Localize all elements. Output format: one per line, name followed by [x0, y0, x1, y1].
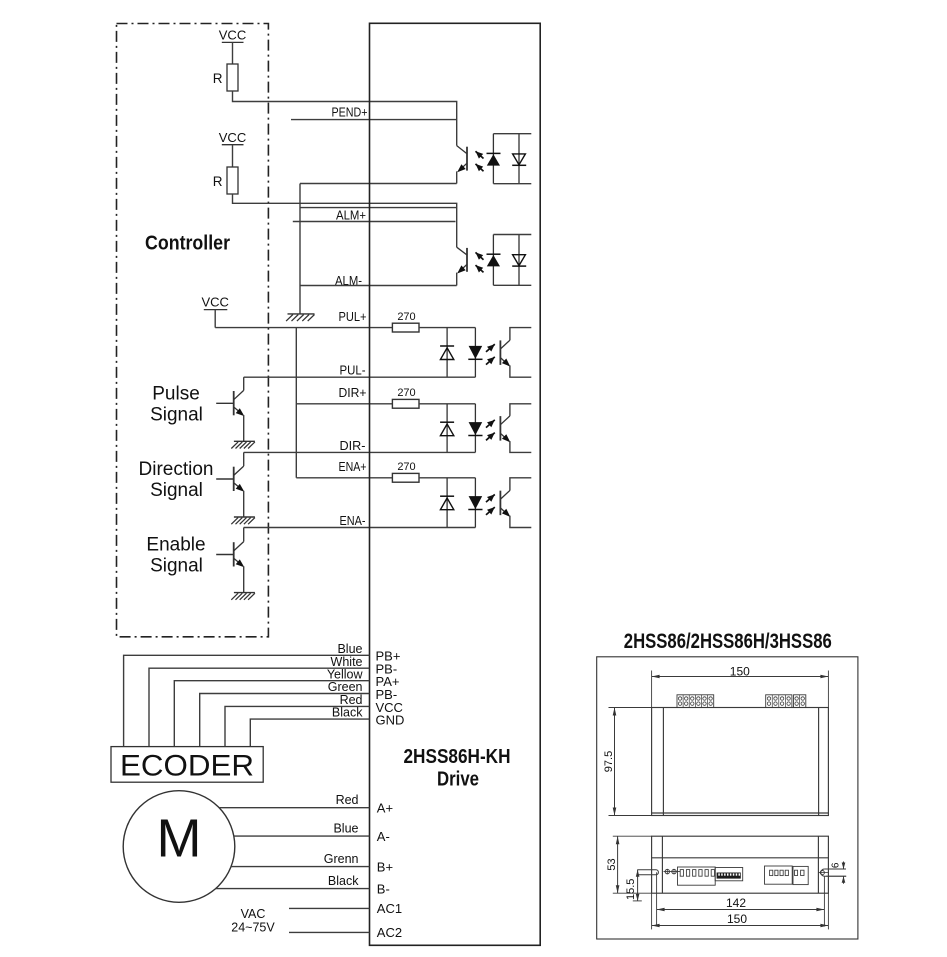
svg-text:142: 142	[726, 896, 746, 910]
svg-text:DIR-: DIR-	[340, 438, 366, 453]
dimension 53	[606, 836, 652, 893]
svg-text:PEND+: PEND+	[332, 105, 368, 120]
svg-text:VAC: VAC	[241, 907, 266, 921]
light arrows (ENA)	[486, 494, 495, 514]
wire encoder Green (PB-)	[200, 694, 370, 747]
wire VCC1 to R1	[232, 42, 234, 64]
mech right mounting slot	[818, 869, 846, 876]
wire encoder Blue (PB+)	[124, 655, 370, 746]
svg-text:ENA+: ENA+	[339, 459, 367, 474]
svg-text:B-: B-	[377, 881, 390, 896]
svg-text:53: 53	[606, 858, 618, 870]
wire U1 emitter (PEND-)	[300, 183, 457, 185]
wire motor A-	[234, 835, 370, 837]
wire U1 bridge rails	[493, 134, 531, 184]
svg-text:VCC: VCC	[219, 130, 246, 145]
svg-text:Blue: Blue	[337, 642, 362, 656]
transistor Q1 pulse	[216, 377, 244, 441]
svg-text:Red: Red	[336, 793, 359, 807]
svg-text:ENA-: ENA-	[340, 513, 366, 528]
svg-text:A-: A-	[377, 829, 390, 844]
dimension 6	[826, 862, 846, 884]
svg-text:AC2: AC2	[377, 925, 402, 940]
controller dashed enclosure	[117, 24, 269, 637]
svg-text:A+: A+	[377, 801, 393, 816]
svg-text:270: 270	[397, 387, 415, 399]
wire R2 to U2 collector	[233, 194, 457, 247]
mech connector 3	[793, 866, 808, 884]
wire ALM- / U2 emitter	[300, 285, 457, 287]
svg-text:ECODER: ECODER	[120, 750, 254, 783]
svg-text:Signal: Signal	[150, 480, 203, 501]
svg-text:24~75V: 24~75V	[231, 921, 275, 935]
mech terminal block 1	[677, 695, 714, 708]
svg-text:15.5: 15.5	[625, 879, 637, 900]
dimension 142	[657, 872, 825, 926]
mech top view body	[652, 708, 829, 816]
wire motor A+	[219, 807, 370, 809]
diode clamp (DIR)	[440, 404, 454, 453]
LED (PUL)	[468, 328, 482, 378]
svg-text:150: 150	[730, 664, 750, 678]
mech outer border	[597, 657, 858, 939]
wire motor B+	[231, 866, 369, 868]
phototransistor U1	[457, 146, 467, 184]
phototransistor (ENA)	[500, 478, 531, 528]
diode clamp (ENA)	[440, 478, 454, 528]
svg-text:Enable: Enable	[146, 535, 205, 556]
mech side view body	[652, 836, 829, 893]
wire resistor to LED (DIR)	[419, 403, 475, 405]
phototransistor (PUL)	[500, 328, 531, 378]
mech terminal block 2	[766, 695, 792, 708]
diode D2 (U1 clamp, open)	[512, 134, 526, 184]
diode D4 (U2 clamp, open)	[512, 235, 526, 286]
light arrows (DIR)	[486, 420, 495, 440]
svg-text:2HSS86/2HSS86H/3HSS86: 2HSS86/2HSS86H/3HSS86	[624, 630, 832, 653]
svg-text:VCC: VCC	[201, 294, 228, 309]
svg-text:DIR+: DIR+	[339, 385, 367, 400]
mech DIP switch	[715, 868, 743, 881]
label Direction Signal	[139, 459, 214, 501]
wire R1 to U1 collector	[233, 91, 457, 146]
svg-text:Signal: Signal	[150, 404, 203, 425]
wire encoder Red (VCC)	[225, 706, 370, 746]
dimension 150 (top)	[652, 664, 829, 707]
power VCC2	[219, 130, 246, 145]
svg-text:PUL-: PUL-	[340, 363, 366, 378]
phototransistor (DIR)	[500, 404, 531, 453]
LED D3 (U2 input, filled)	[487, 235, 501, 286]
svg-text:Signal: Signal	[150, 556, 203, 577]
svg-text:6: 6	[830, 862, 841, 868]
svg-text:Blue: Blue	[333, 822, 358, 836]
encoder box ECODER	[111, 747, 263, 783]
resistor R1	[213, 64, 238, 91]
svg-text:PUL+: PUL+	[339, 309, 367, 324]
wire resistor to LED (PUL)	[419, 327, 475, 329]
mech left screw holes	[664, 869, 681, 874]
mech left mounting slot	[637, 870, 658, 875]
resistor 270 (ENA)	[392, 461, 419, 482]
wire U2 bridge rails	[493, 235, 531, 286]
svg-text:Drive: Drive	[437, 768, 479, 790]
ground G1	[286, 314, 314, 321]
wire DIR+ to resistor	[296, 403, 392, 405]
wire PUL+ to resistor	[215, 327, 392, 329]
wire motor B-	[215, 888, 369, 890]
wire AC2	[289, 931, 370, 933]
label Pulse Signal	[150, 384, 203, 426]
mech connector 2	[765, 866, 793, 884]
light arrows into U1	[476, 151, 484, 171]
svg-text:270: 270	[397, 311, 415, 323]
dimension 15.5	[625, 870, 642, 901]
resistor 270 (DIR)	[392, 387, 419, 408]
wire VCC3 drop	[214, 310, 216, 328]
svg-text:97.5: 97.5	[603, 751, 615, 772]
LED (ENA)	[468, 478, 482, 528]
svg-text:AC1: AC1	[377, 901, 402, 916]
svg-text:Grenn: Grenn	[324, 852, 359, 866]
light arrows (PUL)	[486, 344, 495, 364]
ground below Q2 direction	[231, 517, 255, 524]
ground below Q1 pulse	[231, 441, 255, 448]
mech connector 1	[678, 867, 716, 885]
wire ENA- net	[244, 527, 476, 529]
svg-text:B+: B+	[377, 859, 393, 874]
ground below Q3 enable	[231, 593, 255, 600]
svg-text:Direction: Direction	[139, 459, 214, 480]
wire VCC2 to R2	[232, 145, 234, 167]
wire VCC rail	[295, 328, 297, 478]
svg-text:M: M	[157, 809, 202, 869]
svg-text:2HSS86H-KH: 2HSS86H-KH	[404, 746, 511, 768]
svg-text:ALM+: ALM+	[336, 207, 366, 222]
label 2HSS86H-KH Drive	[404, 746, 511, 790]
wire resistor to LED (ENA)	[419, 477, 475, 479]
resistor R2	[213, 167, 238, 194]
svg-text:Black: Black	[328, 874, 359, 888]
LED (DIR)	[468, 404, 482, 453]
svg-text:GND: GND	[376, 713, 405, 728]
wire encoder Black (GND)	[250, 719, 369, 747]
motor M1 circle	[123, 791, 235, 903]
diode clamp (PUL)	[440, 328, 454, 378]
svg-text:Green: Green	[328, 680, 363, 694]
dimension 97.5	[603, 708, 652, 816]
LED D1 (U1 input, filled)	[487, 134, 501, 184]
svg-text:Pulse: Pulse	[152, 384, 200, 405]
wire encoder White (PB-)	[149, 668, 370, 746]
svg-text:Controller: Controller	[145, 233, 230, 255]
svg-text:Black: Black	[332, 706, 363, 720]
phototransistor U2	[457, 247, 467, 285]
wire PEND+ pin lead	[291, 119, 456, 121]
resistor 270 (PUL)	[392, 311, 419, 332]
power VCC3	[201, 294, 228, 309]
label Enable Signal	[146, 535, 205, 577]
mech terminal block 3	[794, 695, 806, 708]
drive box outline	[370, 23, 541, 945]
wire ALM+ pin lead	[293, 221, 456, 223]
wire AC1	[289, 907, 370, 909]
wire ENA+ to resistor	[296, 477, 392, 479]
wire DIR- net	[244, 451, 476, 453]
label VAC 24~75V	[231, 907, 275, 935]
wire encoder Yellow (PA+)	[174, 681, 369, 747]
wire node A vertical	[299, 184, 301, 314]
transistor Q3 enable	[216, 528, 244, 593]
svg-text:R: R	[213, 71, 223, 86]
wire node A to U2 collector	[300, 207, 457, 209]
transistor Q2 direction	[216, 452, 244, 517]
light arrows into U2	[476, 252, 484, 272]
svg-text:150: 150	[727, 912, 747, 926]
power VCC1	[219, 28, 246, 43]
wire PUL- net	[244, 376, 476, 378]
dimension 150 (bottom)	[652, 893, 829, 929]
svg-text:VCC: VCC	[219, 28, 246, 43]
svg-text:R: R	[213, 174, 223, 189]
svg-text:270: 270	[397, 461, 415, 473]
